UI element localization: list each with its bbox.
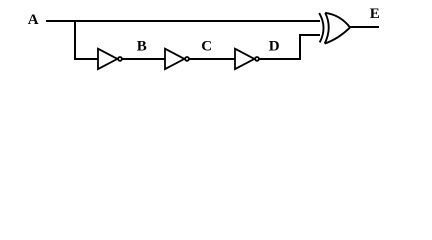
svg-text:A: A xyxy=(28,12,39,28)
svg-text:D: D xyxy=(269,38,280,54)
svg-text:C: C xyxy=(201,39,212,55)
svg-text:E: E xyxy=(370,6,380,22)
svg-text:B: B xyxy=(137,39,147,55)
